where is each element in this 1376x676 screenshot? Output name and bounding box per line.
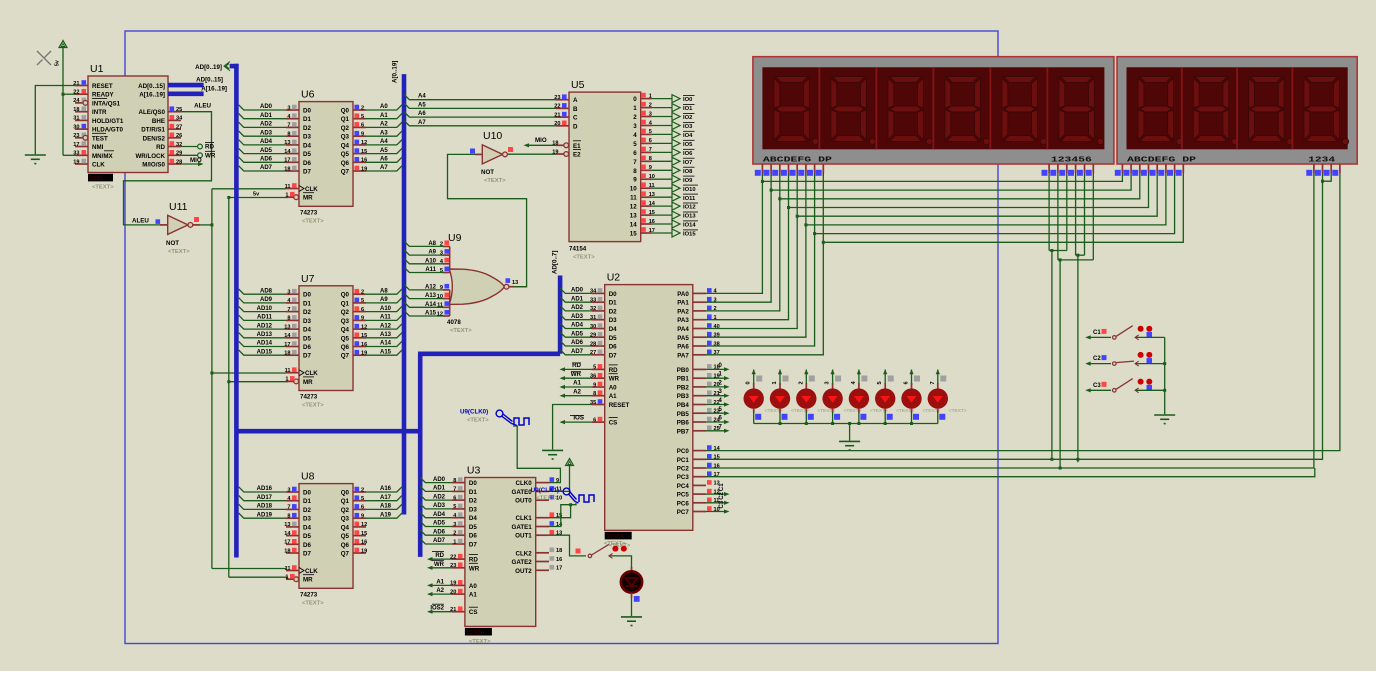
wire segment D to DISP2 xyxy=(789,173,1149,208)
wire A4 to bus xyxy=(366,140,402,145)
svg-text:13: 13 xyxy=(630,213,637,220)
U6 pin CLK xyxy=(286,188,299,190)
U1 pin 30 HLDA/GT0 xyxy=(75,128,88,130)
svg-text:6: 6 xyxy=(361,307,364,313)
U1 pin 23 TEST xyxy=(75,137,88,139)
wire rail to ground xyxy=(849,424,851,441)
svg-text:D2: D2 xyxy=(303,125,311,132)
wire A7 to bus xyxy=(366,166,402,171)
wire A12 to bus xyxy=(366,324,402,329)
terminal WR from U1 xyxy=(181,154,198,156)
U1 A[16..19] bus stub xyxy=(168,92,204,97)
U9 pin 12 input A15 xyxy=(443,315,450,317)
svg-text:AD1: AD1 xyxy=(433,486,446,492)
U1 pin 29 WR/LOCK xyxy=(168,154,181,156)
svg-text:OUT2: OUT2 xyxy=(515,568,532,575)
U2 pin PC0 xyxy=(693,450,706,452)
wire AD4 bus to U3 xyxy=(420,513,452,518)
svg-text:PB0: PB0 xyxy=(677,367,690,374)
svg-text:2: 2 xyxy=(798,381,804,384)
svg-text:6: 6 xyxy=(361,123,364,129)
DISP2 digit 1 segments xyxy=(1138,77,1183,145)
svg-text:MIO: MIO xyxy=(190,157,202,164)
svg-text:PB6: PB6 xyxy=(677,420,690,427)
svg-text:6: 6 xyxy=(904,381,910,384)
wire to U8 MR xyxy=(229,576,288,578)
svg-text:9: 9 xyxy=(633,177,637,184)
wire to U6 CLK xyxy=(212,188,286,190)
wire LED 0 to rail xyxy=(753,412,755,424)
svg-text:5: 5 xyxy=(453,504,456,510)
svg-text:HLDA/GT0: HLDA/GT0 xyxy=(92,127,123,134)
svg-text:U11: U11 xyxy=(169,201,188,213)
wire IO2 terminal xyxy=(652,116,672,118)
svg-text:15: 15 xyxy=(361,531,367,537)
svg-text:11: 11 xyxy=(285,184,291,190)
svg-text:D2: D2 xyxy=(303,309,311,316)
svg-text:CLK2: CLK2 xyxy=(516,550,533,557)
svg-text:15: 15 xyxy=(630,231,637,238)
wire LED 6 to rail xyxy=(911,412,913,424)
svg-text:4078: 4078 xyxy=(447,319,461,326)
svg-text:AD5: AD5 xyxy=(571,331,584,337)
svg-text:CLK: CLK xyxy=(92,162,105,169)
U6 pin D5 xyxy=(286,153,299,155)
wire PC2 to display2 digit1 xyxy=(706,173,1314,468)
wire PA3 to display xyxy=(706,173,789,320)
svg-text:CLK: CLK xyxy=(305,568,318,575)
wire AD0 from bus xyxy=(239,105,286,110)
svg-text:PA5: PA5 xyxy=(677,335,689,342)
svg-text:Q6: Q6 xyxy=(341,160,350,167)
U6 pin MR xyxy=(286,196,294,198)
svg-text:IO10: IO10 xyxy=(683,187,696,193)
terminal 2 from PB2 xyxy=(706,386,726,388)
svg-text:<TEXT>: <TEXT> xyxy=(302,403,324,409)
svg-text:D3: D3 xyxy=(303,318,311,325)
svg-text:D5: D5 xyxy=(609,335,617,342)
svg-text:30: 30 xyxy=(73,124,79,130)
svg-text:C2: C2 xyxy=(1093,356,1101,362)
svg-text:PA3: PA3 xyxy=(677,317,689,324)
terminal MIO from U1 xyxy=(181,163,200,165)
U2 pin D3 xyxy=(592,319,605,321)
U2 pin PA4 xyxy=(693,328,706,330)
U2 pin PC4 xyxy=(693,484,706,486)
U2 pin D7 xyxy=(592,354,605,356)
svg-text:1: 1 xyxy=(772,381,778,384)
U8 pin Q3 xyxy=(353,517,366,519)
U2 pin PB2 xyxy=(693,386,706,388)
svg-text:2: 2 xyxy=(361,487,364,493)
svg-text:9: 9 xyxy=(593,382,596,388)
U1 pin 19 CLK xyxy=(75,163,88,165)
svg-text:11: 11 xyxy=(285,566,291,572)
U6 pin D2 xyxy=(286,126,299,128)
svg-text:A0: A0 xyxy=(380,104,388,110)
svg-text:PA0: PA0 xyxy=(677,291,689,298)
wire AD2 from bus xyxy=(239,122,286,127)
U5 output 13 pin 15 xyxy=(641,214,652,216)
wire IO8 terminal xyxy=(652,169,672,171)
wire U9 output xyxy=(514,286,527,288)
svg-text:A7: A7 xyxy=(380,165,388,171)
wire AD8 from bus xyxy=(239,289,286,294)
U6 pin D0 xyxy=(286,109,299,111)
U9 input connector bars xyxy=(449,246,451,272)
svg-text:A11: A11 xyxy=(425,267,436,273)
wire AD3 from bus xyxy=(239,131,286,136)
svg-text:Q6: Q6 xyxy=(341,344,350,351)
wire AD7 bus to U3 xyxy=(420,539,452,544)
svg-text:C3: C3 xyxy=(1093,383,1101,389)
U5 output 8 pin 9 xyxy=(641,169,652,171)
U1 pin 31 HOLD/GT1 xyxy=(75,119,88,121)
svg-text:D2: D2 xyxy=(469,498,477,505)
wire A0 to bus xyxy=(366,105,402,110)
U2 pin D5 xyxy=(592,336,605,338)
wire U11 output to CLK rail xyxy=(200,224,212,226)
svg-text:AD3: AD3 xyxy=(571,314,584,320)
U7 pin MR xyxy=(286,380,294,382)
U8 pin D6 xyxy=(286,543,299,545)
U3 pin 19 A0 xyxy=(452,584,465,586)
svg-text:8255A: 8255A xyxy=(607,534,625,540)
svg-text:INTR: INTR xyxy=(92,109,107,116)
svg-text:AD0: AD0 xyxy=(571,288,584,294)
svg-text:8: 8 xyxy=(287,514,290,520)
power 5V arrow top-left xyxy=(59,41,67,48)
U1 pin 24 INTA/QS1 xyxy=(75,102,88,104)
svg-text:17: 17 xyxy=(556,566,562,572)
svg-text:A6: A6 xyxy=(380,157,388,163)
svg-text:AD12: AD12 xyxy=(257,323,273,329)
wire AD3 bus to U3 xyxy=(420,504,452,509)
U3 pin D2 xyxy=(452,499,465,501)
svg-text:1: 1 xyxy=(285,377,288,383)
svg-text:AD7: AD7 xyxy=(571,349,584,355)
svg-text:HOLD/GT1: HOLD/GT1 xyxy=(92,118,124,125)
wire A14 bus to U9 xyxy=(404,302,443,307)
svg-text:14: 14 xyxy=(630,222,637,229)
U2 pin 9 A0 xyxy=(592,386,605,388)
wire A12 bus to U9 xyxy=(404,285,443,290)
terminal RD to U3 RD xyxy=(431,558,453,560)
wire C1 to ground rail xyxy=(1136,336,1165,338)
svg-text:A17: A17 xyxy=(380,495,392,501)
svg-text:D0: D0 xyxy=(303,108,311,115)
wire U9 output to U10 input xyxy=(448,154,527,286)
switch C3 xyxy=(1088,389,1111,391)
svg-text:Q0: Q0 xyxy=(341,108,350,115)
wire PC0 to display2 digit4 xyxy=(706,173,1340,451)
latch U7 74273 xyxy=(299,286,353,391)
U5 pin 23 A xyxy=(556,99,569,101)
U8 pin D0 xyxy=(286,491,299,493)
svg-text:CS: CS xyxy=(609,420,618,427)
U7 pin D1 xyxy=(286,302,299,304)
svg-text:AD1: AD1 xyxy=(571,296,584,302)
svg-text:AD7: AD7 xyxy=(433,538,446,544)
wire PA4 to display xyxy=(706,173,797,329)
svg-text:ALE/QS0: ALE/QS0 xyxy=(139,109,166,116)
wire IO9 terminal xyxy=(652,178,672,180)
no-connect X marker xyxy=(37,51,51,65)
wire IO10 terminal xyxy=(652,187,672,189)
U5 pin 22 B xyxy=(556,107,569,109)
svg-text:8086: 8086 xyxy=(90,176,104,182)
wire IO13 terminal xyxy=(652,214,672,216)
svg-text:AD4: AD4 xyxy=(260,139,273,145)
svg-text:D2: D2 xyxy=(303,507,311,514)
U2 pin PA5 xyxy=(693,336,706,338)
svg-text:AD10: AD10 xyxy=(257,306,273,312)
U8 pin D4 xyxy=(286,526,299,528)
svg-text:2: 2 xyxy=(361,105,364,111)
svg-text:D6: D6 xyxy=(469,533,477,540)
svg-text:IO4: IO4 xyxy=(683,133,693,139)
svg-text:Q3: Q3 xyxy=(341,134,350,141)
svg-text:U7: U7 xyxy=(301,273,315,285)
U2 pin PA2 xyxy=(693,310,706,312)
wire A11 to bus xyxy=(366,315,402,320)
svg-text:AD8: AD8 xyxy=(260,288,273,294)
LED common rail xyxy=(754,423,938,425)
wire IO11 terminal xyxy=(652,196,672,198)
svg-text:D4: D4 xyxy=(303,142,311,149)
svg-text:Q5: Q5 xyxy=(341,151,350,158)
svg-text:74273: 74273 xyxy=(300,209,318,216)
wire AD5 bus to U2 xyxy=(560,332,592,337)
U1 pin 22 READY xyxy=(75,93,88,95)
ground for switches xyxy=(1154,414,1175,416)
U8 pin MR xyxy=(286,578,294,580)
7-segment display DISP2 xyxy=(1117,57,1357,164)
U2 pin PC6 xyxy=(693,502,706,504)
wire U2 RESET to ground xyxy=(553,405,592,450)
microprocessor U1 8086 xyxy=(88,76,168,173)
DISP1 digit 3 segments xyxy=(888,77,933,145)
svg-text:AD2: AD2 xyxy=(260,122,273,128)
wire segment A to DISP2 xyxy=(762,173,1122,181)
U2 pin PA0 xyxy=(693,292,706,294)
svg-text:U9(CLK0): U9(CLK0) xyxy=(460,409,488,416)
terminal 3 from PB3 xyxy=(706,395,726,397)
svg-text:18: 18 xyxy=(73,107,79,113)
wire A13 bus to U9 xyxy=(404,293,443,298)
svg-text:24: 24 xyxy=(73,98,80,104)
svg-text:3: 3 xyxy=(287,105,290,111)
svg-text:74154: 74154 xyxy=(569,246,587,253)
svg-text:19: 19 xyxy=(361,548,367,554)
svg-text:Q1: Q1 xyxy=(341,498,350,505)
svg-text:33: 33 xyxy=(73,151,79,157)
svg-text:AD[0..15]: AD[0..15] xyxy=(196,77,223,84)
svg-text:16: 16 xyxy=(361,540,367,546)
wire A5 bus to U5 xyxy=(404,103,556,108)
svg-text:DEN/S2: DEN/S2 xyxy=(143,135,166,142)
svg-text:PC6: PC6 xyxy=(677,500,690,507)
svg-text:5: 5 xyxy=(361,298,364,304)
U5 output 9 pin 10 xyxy=(641,178,652,180)
U1 pin 21 RESET xyxy=(75,85,88,87)
svg-text:AD18: AD18 xyxy=(257,504,273,510)
svg-text:A19: A19 xyxy=(380,512,392,518)
U5 output 4 pin 5 xyxy=(641,133,652,135)
svg-text:3: 3 xyxy=(825,381,831,384)
U2 pin PC2 xyxy=(693,467,706,469)
svg-text:NMI: NMI xyxy=(92,144,104,151)
wire LED 5 to rail xyxy=(884,412,886,424)
svg-text:B: B xyxy=(573,106,578,113)
svg-text:PC3: PC3 xyxy=(677,474,690,481)
U8 pin Q5 xyxy=(353,535,366,537)
svg-text:9: 9 xyxy=(361,514,364,520)
power arrow for U3 GATE0 xyxy=(566,459,574,466)
svg-text:IO9: IO9 xyxy=(683,178,693,184)
wire AD13 from bus xyxy=(239,333,286,338)
U2 pin PB5 xyxy=(693,412,706,414)
svg-text:DT/R/S1: DT/R/S1 xyxy=(141,127,165,134)
LED D1 dark xyxy=(631,567,633,572)
svg-text:A8: A8 xyxy=(380,288,388,294)
NOR gate U9 4078 xyxy=(449,269,504,304)
U3 pin 9 CLK0 xyxy=(536,482,549,484)
DISP1 digit 6 segments xyxy=(1059,77,1104,145)
svg-text:PA1: PA1 xyxy=(677,300,689,307)
DISP2 digit pins xyxy=(1313,164,1315,173)
svg-text:0: 0 xyxy=(633,96,637,103)
U5 output 15 pin 17 xyxy=(641,232,652,234)
U2 pin PA6 xyxy=(693,345,706,347)
svg-text:D7: D7 xyxy=(303,169,311,176)
wire LED 4 to rail xyxy=(858,412,860,424)
wire A10 to bus xyxy=(366,306,402,311)
U2 pin 8 A1 xyxy=(592,395,605,397)
U5 output 10 pin 11 xyxy=(641,187,652,189)
svg-text:11: 11 xyxy=(630,195,637,202)
svg-text:D1: D1 xyxy=(609,300,617,307)
ground below dark LED xyxy=(621,616,642,618)
svg-text:Q7: Q7 xyxy=(341,353,350,360)
latch U8 74273 xyxy=(299,484,353,589)
wire A16 to bus xyxy=(366,487,402,492)
U3 pin 23 WR xyxy=(452,567,465,569)
svg-text:8: 8 xyxy=(593,391,596,397)
svg-text:A16: A16 xyxy=(380,486,392,492)
terminal RD to U2 xyxy=(563,368,592,370)
svg-text:A6: A6 xyxy=(418,111,426,117)
svg-text:CLK: CLK xyxy=(305,186,318,193)
svg-text:A13: A13 xyxy=(380,332,392,338)
U2 pin 5 RD xyxy=(592,368,605,370)
svg-text:18: 18 xyxy=(284,548,290,554)
svg-text:IO14: IO14 xyxy=(683,223,696,229)
wire AD15 from bus xyxy=(239,350,286,355)
svg-text:PC2: PC2 xyxy=(677,466,690,473)
svg-text:GATE2: GATE2 xyxy=(512,559,533,566)
wire DISP1 digit join to PC2 xyxy=(1059,260,1061,468)
svg-text:MN/MX: MN/MX xyxy=(92,153,113,160)
U9 output pin 13 xyxy=(509,286,514,288)
wire A8 bus to U9 xyxy=(404,241,443,246)
svg-text:<TEXT>: <TEXT> xyxy=(949,408,967,414)
svg-text:C: C xyxy=(573,115,578,122)
terminal C2 from PC6 xyxy=(706,502,726,504)
svg-text:PB3: PB3 xyxy=(677,393,690,400)
DISP2 digit 2 segments xyxy=(1193,77,1238,145)
wire AD9 from bus xyxy=(239,298,286,303)
U3 pin D6 xyxy=(452,534,465,536)
svg-text:8: 8 xyxy=(287,132,290,138)
svg-text:A0: A0 xyxy=(469,583,477,590)
U7 pin Q5 xyxy=(353,337,366,339)
svg-text:RD: RD xyxy=(435,553,444,559)
svg-text:5: 5 xyxy=(361,114,364,120)
wire A13 to bus xyxy=(366,332,402,337)
U5 output 7 pin 8 xyxy=(641,160,652,162)
wire PA1 to display xyxy=(706,173,771,302)
svg-text:27: 27 xyxy=(176,124,182,130)
svg-text:AD5: AD5 xyxy=(433,521,446,527)
svg-text:5: 5 xyxy=(633,141,637,148)
U8 pin Q2 xyxy=(353,508,366,510)
svg-text:7: 7 xyxy=(930,381,936,384)
svg-text:3: 3 xyxy=(453,522,456,528)
wire PA7 to display xyxy=(706,173,823,355)
svg-text:A0: A0 xyxy=(609,385,617,392)
U3 pin 15 CLK1 xyxy=(536,517,549,519)
svg-text:PC0: PC0 xyxy=(677,448,690,455)
svg-text:<TEXT>: <TEXT> xyxy=(450,328,472,334)
svg-text:3: 3 xyxy=(287,487,290,493)
LED 0 red xyxy=(753,370,755,386)
svg-text:C3: C3 xyxy=(719,500,725,508)
svg-text:U2: U2 xyxy=(607,272,621,284)
wire AD7 from bus xyxy=(239,166,286,171)
U7 pin Q7 xyxy=(353,354,366,356)
DISP1 digit 1 segments xyxy=(774,77,819,145)
svg-text:1: 1 xyxy=(285,193,288,199)
svg-text:D6: D6 xyxy=(303,344,311,351)
wire A7 bus to U5 xyxy=(404,120,556,125)
wire A15 bus to U9 xyxy=(404,311,443,316)
svg-text:A[16..19]: A[16..19] xyxy=(201,85,227,92)
svg-text:2: 2 xyxy=(633,114,637,121)
switch SW4 at U3 OUT1 xyxy=(588,554,592,558)
wire clock to U3 CLK0 xyxy=(513,426,560,483)
svg-text:WR: WR xyxy=(469,565,480,572)
svg-text:1: 1 xyxy=(649,93,652,99)
U2 pin PB6 xyxy=(693,421,706,423)
svg-text:PB5: PB5 xyxy=(677,411,690,418)
wire to U7 MR xyxy=(229,381,288,383)
svg-text:IO2: IO2 xyxy=(683,115,692,121)
wire ALE to U11 input xyxy=(124,112,212,225)
U3 pin 18 CLK2 xyxy=(536,552,549,554)
bus horizontal to U2 xyxy=(418,351,560,356)
svg-text:AD6: AD6 xyxy=(571,340,584,346)
terminal IOS to U2 CS xyxy=(563,421,592,423)
svg-text:A14: A14 xyxy=(380,341,392,347)
U9 pin 5 input A11 xyxy=(443,272,450,274)
svg-text:AD0: AD0 xyxy=(260,104,273,110)
svg-text:IO8: IO8 xyxy=(683,169,693,175)
U8 pin D3 xyxy=(286,517,299,519)
svg-text:D5: D5 xyxy=(303,335,311,342)
U7 pin D5 xyxy=(286,337,299,339)
svg-text:AD0: AD0 xyxy=(433,477,446,483)
